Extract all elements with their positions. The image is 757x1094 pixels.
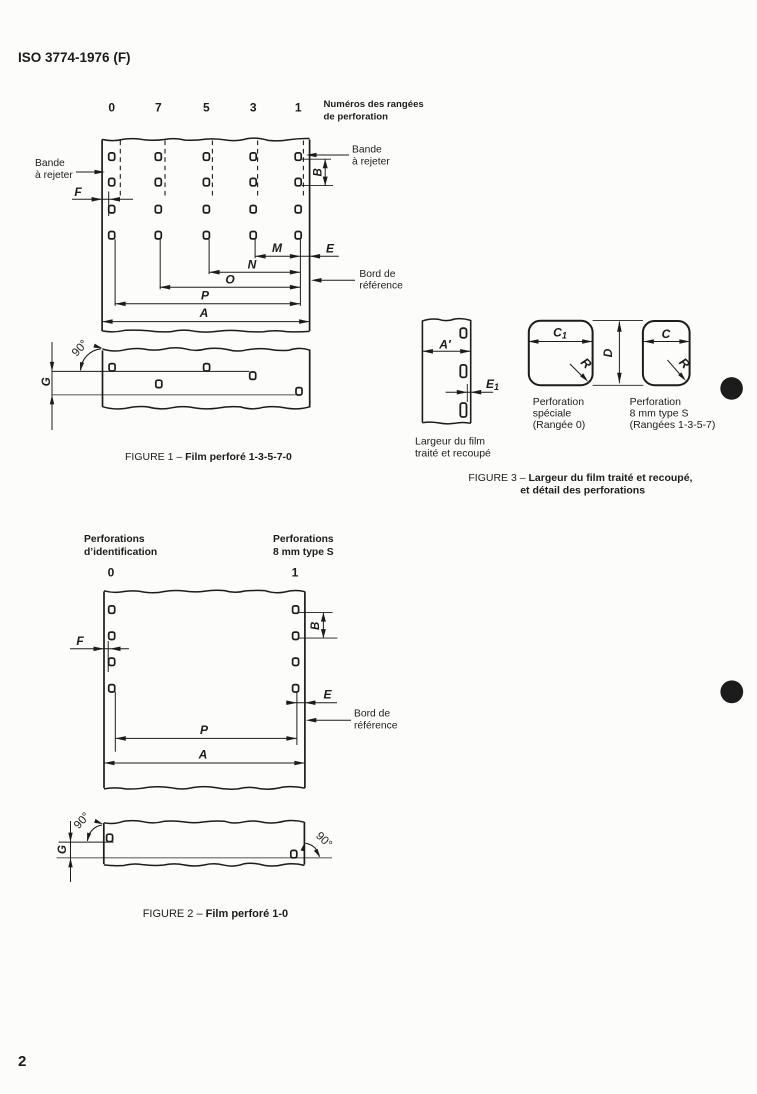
svg-text:Perforations: Perforations [273, 534, 334, 545]
fig2 film outline [104, 590, 305, 593]
svg-text:traité et recoupé: traité et recoupé [415, 448, 491, 460]
svg-text:D: D [601, 348, 615, 357]
svg-text:C: C [662, 327, 671, 341]
svg-text:Largeur du film: Largeur du film [415, 436, 485, 448]
fig2 strip perforations [107, 834, 113, 841]
svg-text:Perforation: Perforation [533, 396, 585, 408]
svg-text:(Rangée 0): (Rangée 0) [533, 419, 586, 431]
svg-text:C1: C1 [553, 326, 567, 341]
svg-text:ISO 3774-1976 (F): ISO 3774-1976 (F) [18, 50, 131, 65]
fig3 top tangent line between squares [593, 319, 643, 321]
svg-text:A′: A′ [438, 338, 452, 352]
svg-text:E: E [323, 688, 332, 702]
fig2 extension lines [296, 692, 298, 745]
svg-text:FIGURE 3 – Largeur du film tra: FIGURE 3 – Largeur du film traité et rec… [468, 472, 692, 484]
fig1 lower strip (edge view) [103, 348, 310, 351]
svg-text:Bord de: Bord de [354, 709, 390, 720]
svg-text:référence: référence [359, 281, 403, 292]
svg-text:F: F [74, 185, 82, 199]
svg-text:FIGURE 2 – Film perforé 1-0: FIGURE 2 – Film perforé 1-0 [143, 908, 289, 920]
fig2 dimension B [299, 612, 333, 614]
svg-text:FIGURE 1 – Film perforé 1-3-5-: FIGURE 1 – Film perforé 1-3-5-7-0 [125, 451, 292, 463]
svg-text:Perforations: Perforations [84, 534, 145, 545]
svg-text:à rejeter: à rejeter [352, 157, 390, 168]
fig3 strip perforations [460, 328, 466, 338]
fig1 90-degree angle arc [81, 349, 102, 370]
svg-text:A: A [198, 748, 208, 762]
svg-text:référence: référence [354, 721, 398, 732]
fig3 narrow trimmed-film strip [422, 319, 470, 321]
svg-text:G: G [57, 845, 69, 854]
fig3 8mm type S perforation detail [643, 321, 690, 385]
svg-text:2: 2 [18, 1053, 26, 1070]
fig3 bottom tangent line between squares [593, 384, 644, 386]
fig3 radius R arrow (left square) [570, 364, 584, 378]
fig1 dimension B [302, 158, 331, 160]
svg-text:à rejeter: à rejeter [35, 170, 73, 181]
svg-text:Bande: Bande [35, 158, 65, 169]
fig2 strip reference lines [59, 841, 114, 843]
fig2 left 90-degree arc [88, 825, 103, 841]
fig1 strip reference lines [52, 370, 250, 372]
svg-text:P: P [200, 723, 209, 737]
svg-text:de perforation: de perforation [324, 112, 389, 123]
registration dot 2 [720, 680, 743, 703]
svg-text:7: 7 [155, 101, 162, 115]
fig2 perforations two columns [109, 606, 115, 613]
svg-text:E: E [326, 242, 335, 256]
svg-text:G: G [41, 377, 53, 386]
svg-text:spéciale: spéciale [533, 408, 572, 420]
fig1 dimension G [51, 342, 53, 430]
svg-text:0: 0 [108, 566, 115, 580]
svg-text:A: A [199, 306, 209, 320]
svg-text:P: P [201, 289, 210, 303]
svg-text:90°: 90° [313, 830, 334, 851]
svg-text:E1: E1 [486, 377, 499, 392]
fig1 strip perforations (staggered) [109, 364, 115, 371]
svg-text:Numéros des rangées: Numéros des rangées [324, 99, 424, 110]
fig2 right 90-degree arc [306, 843, 320, 856]
svg-text:N: N [248, 258, 257, 272]
svg-text:d’identification: d’identification [84, 547, 157, 558]
fig3 special perforation (row 0) detail [529, 321, 593, 385]
svg-text:0: 0 [108, 101, 115, 115]
fig1 extension lines from row-4 perforations [114, 239, 116, 305]
fig3 dimension D [618, 322, 620, 384]
svg-text:M: M [272, 241, 283, 255]
svg-text:B: B [312, 168, 324, 176]
svg-text:(Rangées 1-3-5-7): (Rangées 1-3-5-7) [630, 419, 716, 431]
svg-text:8 mm type S: 8 mm type S [273, 547, 334, 558]
svg-text:O: O [225, 273, 235, 287]
svg-text:et détail des perforations: et détail des perforations [520, 485, 645, 497]
svg-text:B: B [310, 622, 322, 630]
svg-text:1: 1 [295, 101, 302, 115]
fig1 cut dashed lines [119, 141, 121, 198]
registration dot 1 [720, 377, 743, 400]
svg-text:1: 1 [292, 566, 299, 580]
fig2 lower strip (edge view) [104, 820, 305, 823]
svg-text:3: 3 [250, 101, 257, 115]
svg-text:Bord de: Bord de [359, 269, 395, 280]
svg-text:8 mm type S: 8 mm type S [630, 408, 689, 420]
svg-text:F: F [76, 634, 84, 648]
fig1 perforations grid [109, 153, 115, 160]
svg-text:90°: 90° [72, 811, 93, 832]
fig3 radius R arrow (right square) [667, 360, 681, 377]
fig1 film outline [102, 138, 310, 141]
svg-text:5: 5 [203, 101, 210, 115]
arrow to right strip [315, 154, 349, 156]
arrow to left film edge [76, 171, 96, 173]
svg-text:Bande: Bande [352, 145, 382, 156]
svg-text:Perforation: Perforation [630, 396, 682, 408]
fig2 dimension G [70, 821, 72, 882]
